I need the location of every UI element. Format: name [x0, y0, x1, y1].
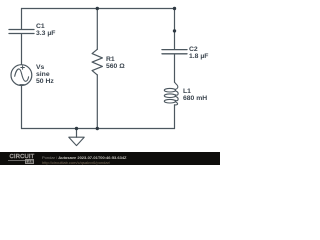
ground [69, 129, 84, 146]
node R1 bottom [96, 127, 99, 130]
wire bottom rail [22, 128, 175, 130]
wire L1 to bottom rail [174, 105, 176, 129]
wire right branch upper [174, 9, 176, 50]
wire R1 branch upper [96, 9, 98, 50]
capacitor C2 [162, 50, 187, 54]
wire top rail [22, 8, 175, 10]
CircuitLab logo [10, 154, 35, 160]
resistor R1 [92, 49, 102, 75]
node C2 terminal [173, 29, 176, 32]
label Vs value [36, 65, 54, 85]
label C2 value [189, 47, 208, 60]
wire R1 branch lower [96, 75, 98, 129]
node R1 top [96, 7, 99, 10]
inductor L1 [164, 82, 178, 105]
wire C2 to L1 [174, 54, 176, 82]
node ground junction [75, 127, 78, 130]
node top-right corner [173, 7, 176, 10]
watermark text line 1 [42, 155, 127, 160]
label C1 value [36, 24, 55, 37]
label L1 value [183, 89, 207, 102]
wire source to bottom rail [21, 85, 23, 128]
wire left branch upper [21, 9, 23, 30]
label R1 value [106, 57, 125, 70]
voltage source Vs [11, 65, 32, 86]
watermark bar [0, 152, 220, 165]
wire C1 to source [21, 34, 23, 65]
watermark text line 2 [42, 160, 110, 165]
capacitor C1 [9, 30, 34, 34]
